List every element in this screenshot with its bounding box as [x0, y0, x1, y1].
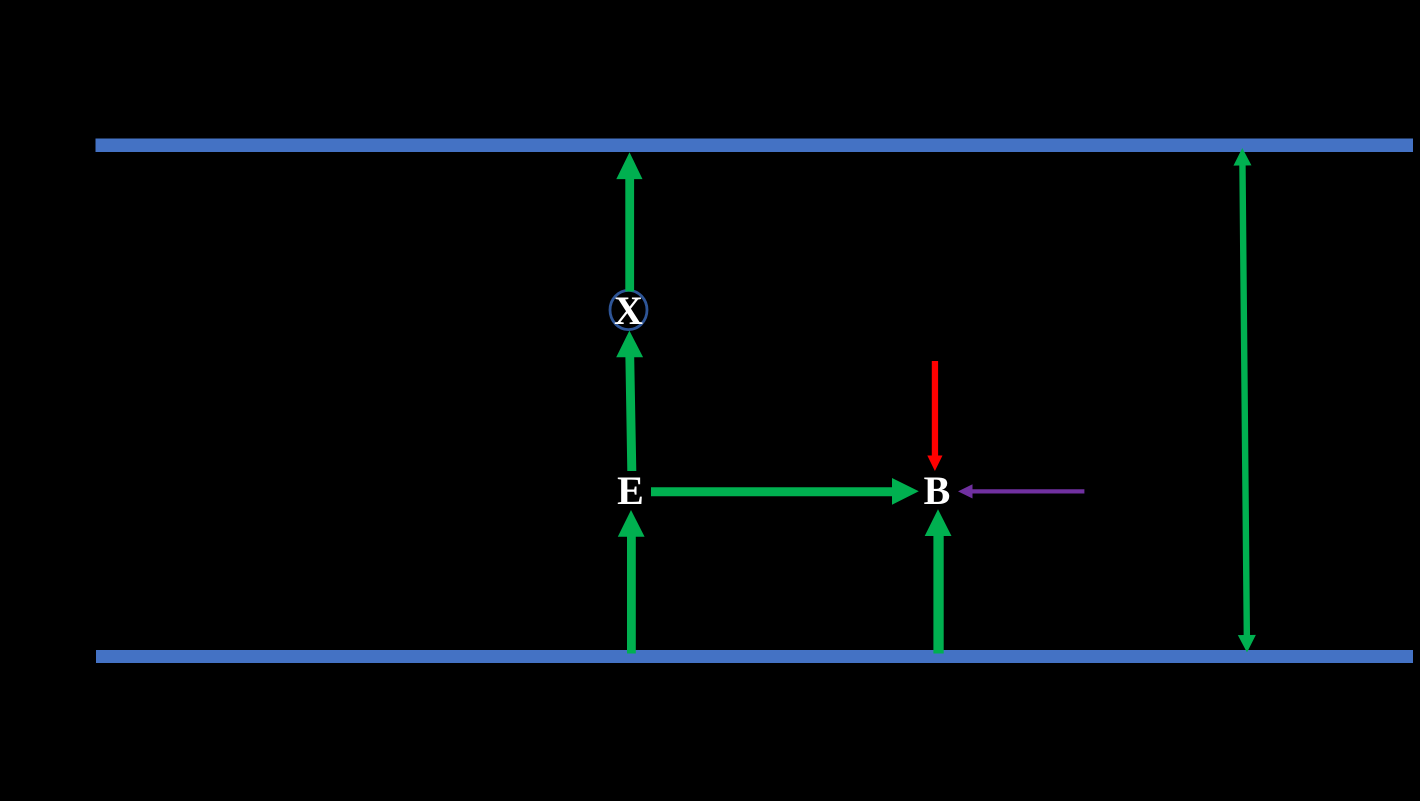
svg-text:X: X: [614, 288, 643, 333]
svg-text:B: B: [924, 468, 951, 513]
svg-text:E: E: [617, 468, 644, 513]
